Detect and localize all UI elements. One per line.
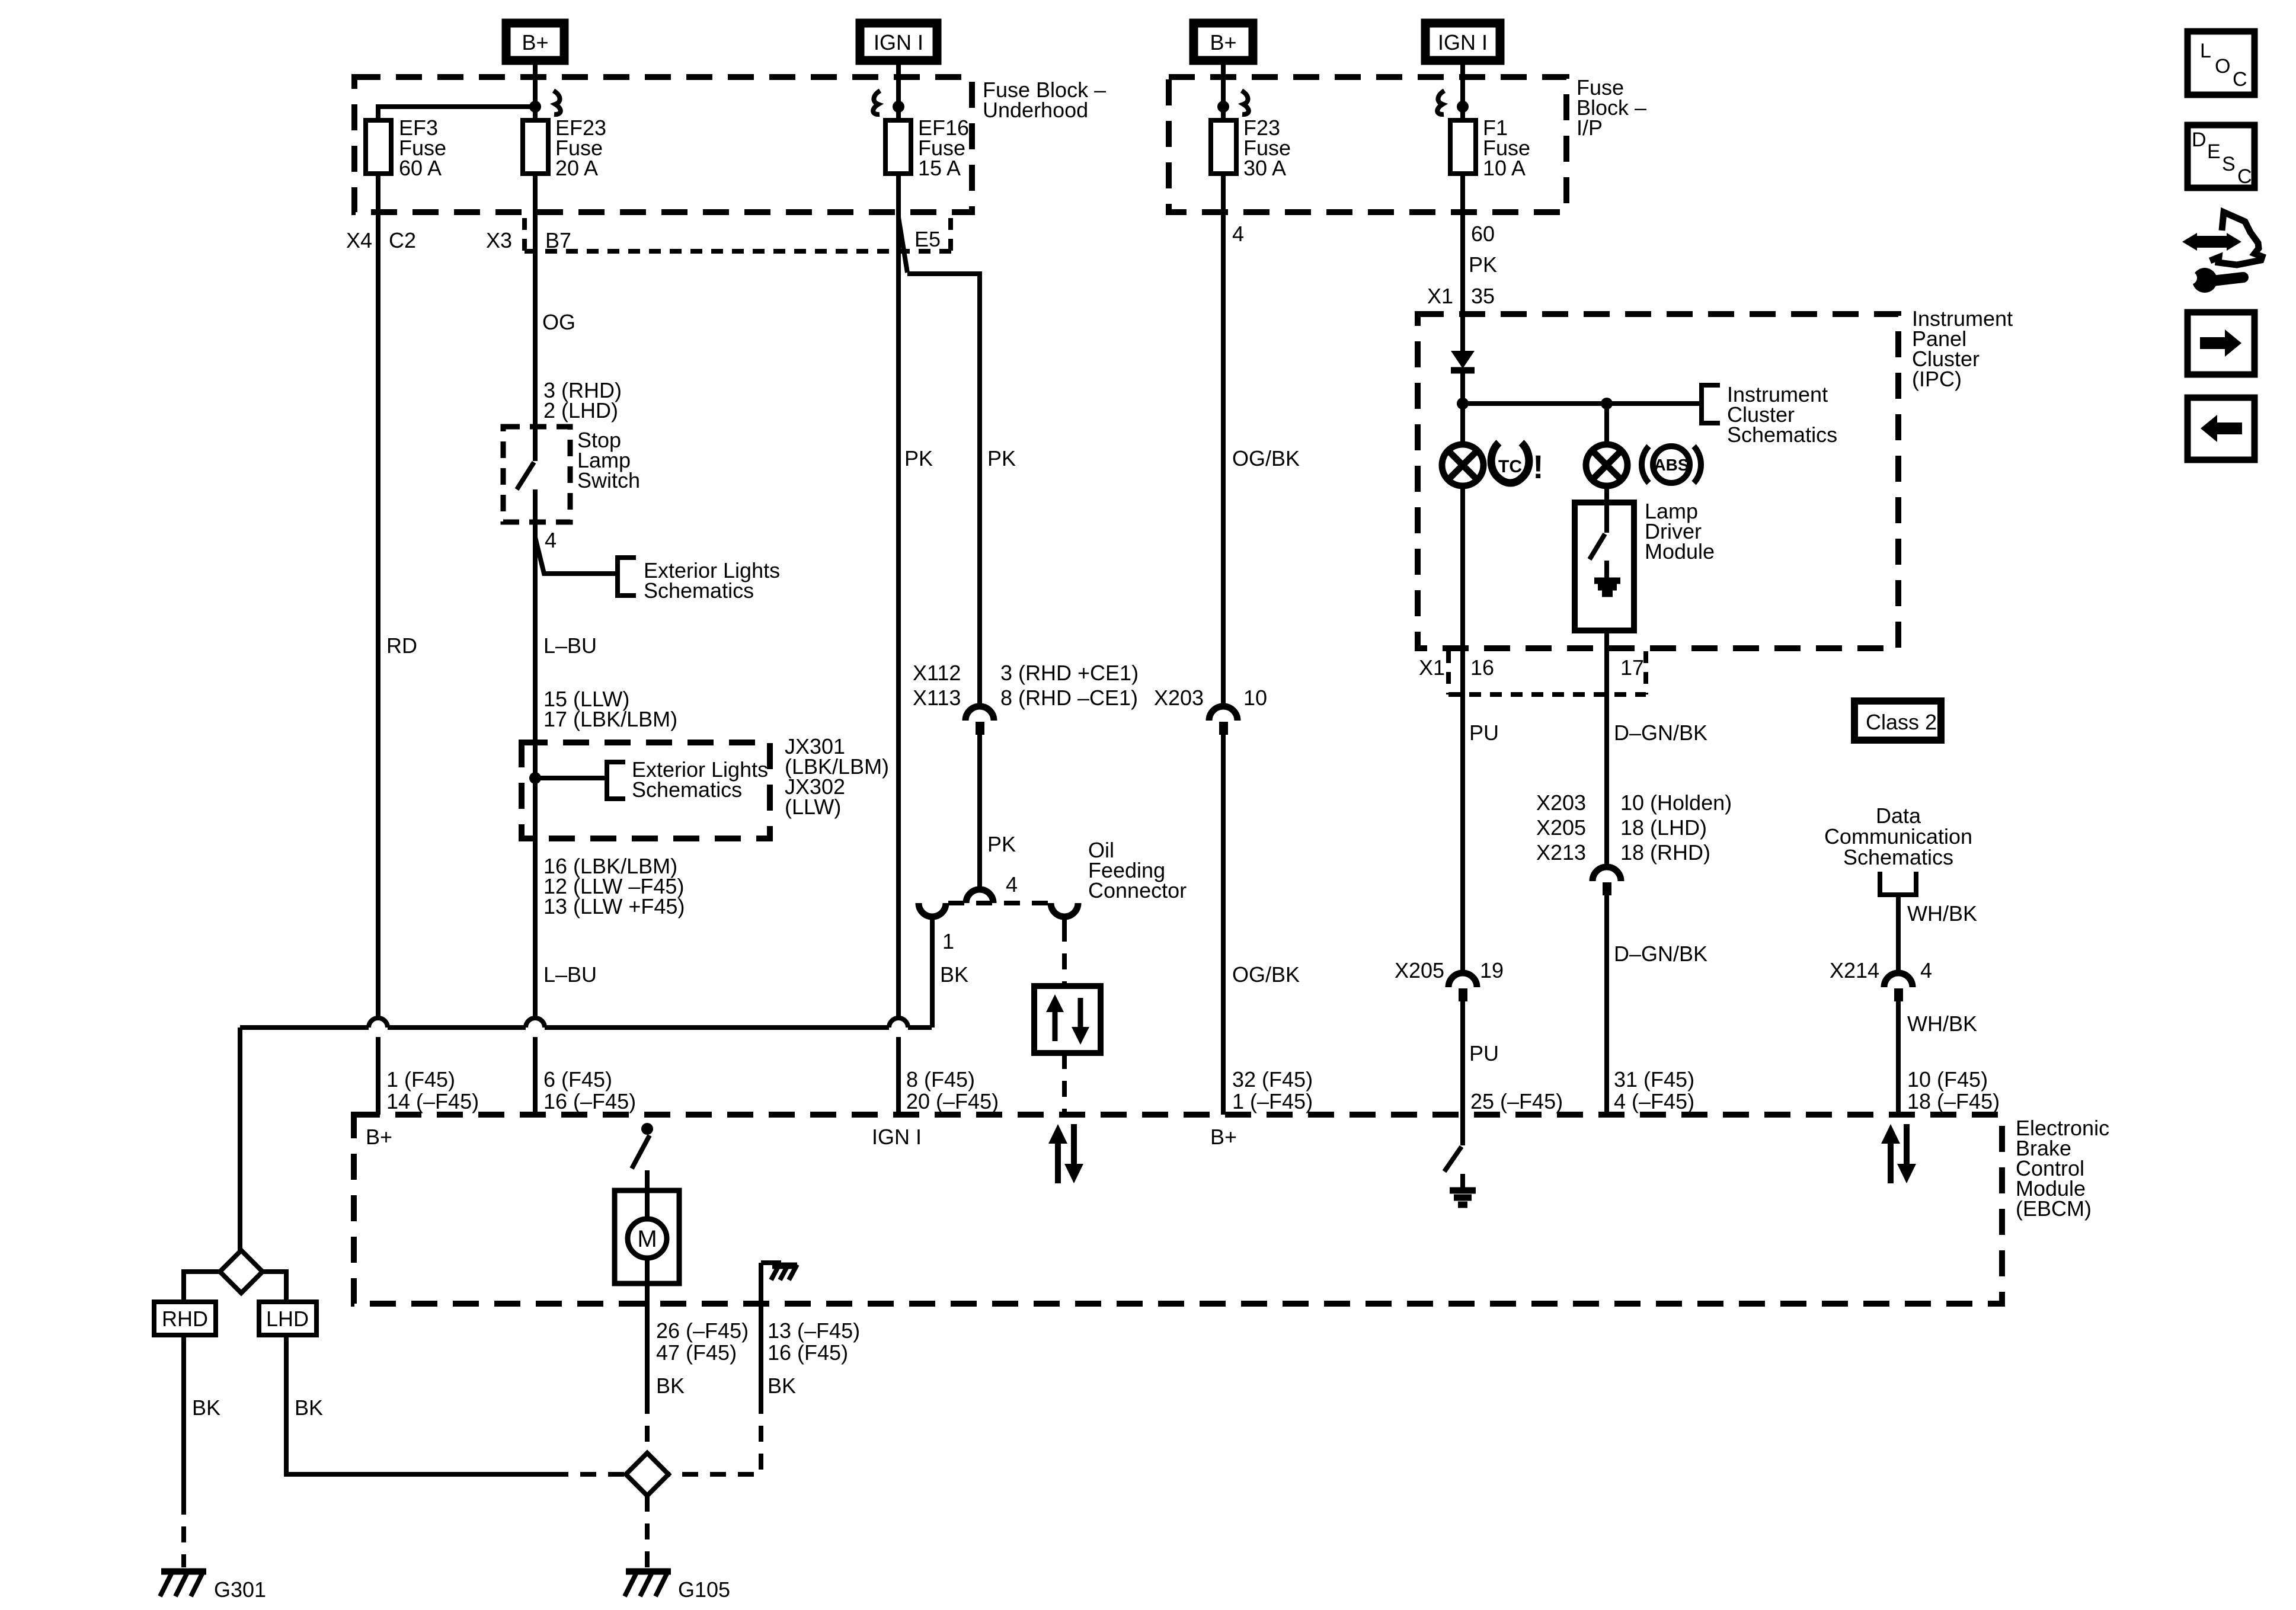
svg-text:!: !	[1533, 448, 1544, 485]
svg-text:IGN I: IGN I	[872, 1125, 922, 1149]
node junction dot at F1 feed	[1457, 101, 1469, 113]
pin labels 31 (F45) 4 (-F45)	[1614, 1067, 1694, 1113]
icon service wrench with arrows	[2177, 212, 2262, 293]
svg-text:RD: RD	[386, 633, 417, 658]
svg-text:IGN I: IGN I	[1438, 30, 1488, 55]
clip connector hook right of F23 junction	[1242, 91, 1249, 114]
svg-text:2 (LHD): 2 (LHD)	[543, 398, 618, 422]
stop lamp switch contacts and blade	[517, 427, 535, 522]
wire label BK (ground stub)	[768, 1374, 796, 1398]
pin labels 32 (F45) 1 (-F45)	[1232, 1067, 1313, 1113]
svg-text:1 (–F45): 1 (–F45)	[1232, 1089, 1313, 1113]
wire branch to exterior lights schematics	[535, 537, 618, 574]
node junction dot right (IPC)	[1601, 398, 1613, 409]
svg-text:35: 35	[1471, 284, 1495, 308]
svg-text:WH/BK: WH/BK	[1907, 1012, 1977, 1036]
wire left drop to RHD/LHD diamond	[238, 1028, 242, 1251]
svg-text:D–GN/BK: D–GN/BK	[1614, 721, 1707, 745]
svg-text:L: L	[2200, 40, 2211, 62]
icon forward arrow box	[2188, 312, 2255, 375]
two-way arrows below EBCM edge (oil feeding)	[1048, 1124, 1083, 1183]
stop lamp switch label	[577, 428, 640, 492]
chassis ground stub in EBCM	[761, 1263, 797, 1280]
svg-text:20 (–F45): 20 (–F45)	[906, 1089, 999, 1113]
data communication schematics label	[1824, 804, 1972, 869]
pin labels 3 (RHD +CE1) 8 (RHD -CE1)	[1000, 661, 1139, 710]
ground G105	[625, 1570, 730, 1602]
svg-text:C2: C2	[389, 228, 416, 252]
wire B+ into fuse block	[533, 60, 538, 120]
svg-text:G301: G301	[214, 1577, 266, 1602]
svg-text:18 (–F45): 18 (–F45)	[1907, 1089, 2000, 1113]
wire PK from fuse F1 to IPC	[1460, 174, 1465, 353]
svg-text:ABS: ABS	[1654, 456, 1689, 474]
wire label BK	[940, 962, 968, 987]
svg-text:PK: PK	[987, 832, 1016, 856]
connector row X1 16 17 dotted box	[1448, 651, 1646, 694]
pin labels 8 (F45) 20 (-F45)	[906, 1067, 999, 1113]
pin label 60	[1471, 222, 1495, 246]
connector labels X4 C2	[346, 228, 416, 252]
pin label 4 at oil connector	[1006, 872, 1018, 897]
wire WH/BK from bracket	[1896, 895, 1901, 972]
inline connector on D-GN/BK wire	[1593, 867, 1621, 895]
svg-text:X214: X214	[1830, 958, 1879, 982]
svg-text:18 (RHD): 18 (RHD)	[1620, 840, 1710, 865]
svg-text:16 (F45): 16 (F45)	[768, 1340, 848, 1365]
svg-text:LHD: LHD	[266, 1307, 309, 1331]
svg-text:PK: PK	[904, 446, 933, 470]
svg-text:16: 16	[1470, 655, 1494, 680]
bracket instrument cluster schematics	[1702, 385, 1720, 423]
wire horizontal to instrument cluster bracket	[1463, 401, 1702, 406]
wire label OG/BK (upper)	[1232, 446, 1300, 470]
wire PK from EF16 with E5 jog	[898, 174, 980, 1115]
wire label WH/BK (upper)	[1907, 901, 1977, 926]
svg-text:Switch: Switch	[577, 468, 640, 492]
clip connector hook right of B+ junction	[554, 91, 561, 114]
svg-text:14 (–F45): 14 (–F45)	[386, 1089, 479, 1113]
svg-text:60 A: 60 A	[399, 156, 442, 180]
fuse EF3 value label	[399, 116, 446, 180]
svg-text:X203: X203	[1154, 686, 1204, 710]
bracket exterior lights schematics (lower)	[607, 762, 625, 799]
svg-text:O: O	[2215, 55, 2230, 78]
two-way signal box on oil feeding circuit	[1034, 986, 1101, 1053]
node junction dot left (IPC)	[1457, 398, 1469, 409]
pin labels 10 (F45) 18 (-F45)	[1907, 1067, 2000, 1113]
svg-text:10 (F45): 10 (F45)	[1907, 1067, 1988, 1092]
power terminal B+ (underhood)	[506, 23, 564, 60]
splice diamond G105	[626, 1453, 669, 1496]
icon ABS	[1642, 446, 1701, 483]
svg-text:4: 4	[545, 528, 557, 552]
instrument panel cluster dashed box	[1418, 314, 1898, 648]
wire dashed oil feeding down to EBCM	[1062, 917, 1067, 1115]
wire lamp TC down through IPC connector	[1460, 486, 1465, 972]
pin label 25 (-F45)	[1470, 1089, 1563, 1113]
wire dashed between oil connector halves	[948, 901, 1049, 905]
svg-text:Schematics: Schematics	[632, 777, 742, 802]
clip connector hook left of F1 junction	[1437, 91, 1444, 114]
svg-text:1 (F45): 1 (F45)	[386, 1067, 455, 1092]
wire BK from RHD to ground	[181, 1335, 186, 1567]
svg-text:X203: X203	[1536, 790, 1586, 815]
pin labels 1 (F45) 14 (-F45)	[386, 1067, 479, 1113]
svg-text:4: 4	[1232, 222, 1244, 246]
switch to ground in EBCM (PU wire)	[1444, 1115, 1476, 1205]
svg-text:X205: X205	[1395, 958, 1444, 982]
fuse F23 value label	[1243, 116, 1291, 180]
svg-text:PU: PU	[1469, 721, 1499, 745]
wire OG from EF23 to stop lamp switch	[533, 174, 538, 427]
pin labels X203 X205 X213	[1536, 790, 1586, 865]
wire label D-GN/BK (lower)	[1614, 942, 1707, 966]
fuse block underhood dashed box	[354, 77, 972, 212]
svg-text:X3: X3	[486, 228, 512, 252]
svg-text:18 (LHD): 18 (LHD)	[1620, 815, 1707, 840]
pin label 3 (RHD) 2 (LHD)	[543, 378, 622, 422]
exterior lights schematics label (upper)	[644, 558, 780, 603]
lamp driver module label	[1645, 499, 1715, 564]
wire label D-GN/BK (upper)	[1614, 721, 1707, 745]
pin label 4 below F23	[1232, 222, 1244, 246]
wire BK from ground stub	[669, 1263, 761, 1474]
wire from lamp driver module down	[1604, 630, 1609, 866]
wire PK below connector to oil feeding connector	[977, 735, 982, 889]
svg-text:X112: X112	[913, 661, 961, 685]
pump motor box	[615, 1190, 679, 1283]
svg-text:Schematics: Schematics	[1843, 845, 1953, 869]
wire label OG	[542, 310, 575, 334]
fuse block I/P label	[1576, 75, 1646, 140]
svg-text:3 (RHD +CE1): 3 (RHD +CE1)	[1000, 661, 1139, 685]
two-way arrows below EBCM edge (class 2 serial data)	[1881, 1124, 1916, 1183]
svg-text:17 (LBK/LBM): 17 (LBK/LBM)	[543, 707, 677, 731]
wire label PU (lower)	[1469, 1041, 1499, 1065]
wire IGN I I/P into fuse block	[1460, 60, 1465, 120]
svg-text:L–BU: L–BU	[543, 962, 597, 987]
pin labels X214 4	[1830, 958, 1932, 982]
EBCM label	[2016, 1116, 2109, 1221]
node junction dot at B+ I/P feed	[1217, 101, 1229, 113]
wire BK from oil connector to bus	[930, 917, 935, 1028]
svg-text:17: 17	[1620, 655, 1644, 680]
svg-text:X1: X1	[1419, 655, 1445, 680]
junction box JX301 JX302 dashed box	[522, 742, 770, 838]
indicator lamp ABS	[1586, 404, 1627, 486]
svg-text:Connector: Connector	[1088, 878, 1187, 902]
wire PU below connector to EBCM	[1460, 1001, 1465, 1115]
fuse EF23	[523, 120, 548, 174]
svg-text:16 (–F45): 16 (–F45)	[543, 1089, 636, 1113]
instrument panel cluster label	[1912, 306, 2013, 391]
pin labels X1 35	[1427, 284, 1495, 308]
svg-text:I/P: I/P	[1576, 116, 1603, 140]
lamp driver module switch and ground	[1590, 502, 1620, 594]
svg-text:M: M	[637, 1226, 657, 1252]
svg-text:WH/BK: WH/BK	[1907, 901, 1977, 926]
svg-text:B7: B7	[545, 228, 571, 252]
svg-text:X4: X4	[346, 228, 372, 252]
svg-text:10: 10	[1243, 686, 1267, 710]
pin labels X205 19	[1395, 958, 1504, 982]
net label B+ (left, in EBCM)	[366, 1125, 392, 1149]
svg-text:E: E	[2207, 140, 2221, 163]
svg-text:TC: TC	[1498, 457, 1522, 476]
icon TC warning (tire + !)	[1491, 443, 1544, 485]
svg-text:C: C	[2233, 68, 2247, 91]
node junction dot in JX box	[529, 772, 541, 784]
power terminal IGN I (I/P)	[1425, 23, 1500, 60]
svg-text:S: S	[2222, 153, 2236, 175]
node junction dot pump motor supply	[641, 1123, 653, 1135]
svg-text:(EBCM): (EBCM)	[2016, 1196, 2092, 1221]
svg-text:20 A: 20 A	[555, 156, 598, 180]
svg-text:4: 4	[1920, 958, 1932, 982]
svg-text:13 (–F45): 13 (–F45)	[768, 1318, 860, 1343]
wire WH/BK below connector to EBCM	[1896, 1001, 1901, 1115]
svg-text:26 (–F45): 26 (–F45)	[656, 1318, 749, 1343]
svg-text:B+: B+	[1210, 1125, 1237, 1149]
svg-text:10 A: 10 A	[1483, 156, 1526, 180]
RHD option box	[154, 1302, 216, 1335]
node junction dot at IGN I feed	[893, 101, 904, 113]
svg-text:BK: BK	[192, 1395, 220, 1420]
wire IGN I into fuse block	[896, 60, 901, 120]
pin label 15 (LLW) 17 (LBK/LBM)	[543, 687, 677, 731]
inline connector X112/X113 on PK wire	[965, 706, 994, 735]
wire diamond to LHD box	[263, 1272, 286, 1302]
inline connector X205 on PU wire	[1448, 973, 1477, 1001]
svg-text:OG/BK: OG/BK	[1232, 962, 1300, 987]
wire label BK (LHD)	[295, 1395, 323, 1420]
svg-text:RHD: RHD	[162, 1307, 208, 1331]
pin labels 26 (-F45) 47 (F45)	[656, 1318, 749, 1365]
ground G301	[160, 1570, 266, 1602]
fuse F1	[1450, 120, 1476, 174]
svg-text:B+: B+	[366, 1125, 392, 1149]
svg-text:10 (Holden): 10 (Holden)	[1620, 790, 1732, 815]
svg-text:(LLW): (LLW)	[785, 795, 841, 819]
wire lamp ABS to lamp driver module	[1604, 486, 1609, 502]
svg-text:B+: B+	[1210, 30, 1236, 55]
power terminal IGN I (underhood)	[860, 23, 937, 60]
wire D-GN/BK below connector to EBCM	[1604, 895, 1609, 1115]
svg-text:X205: X205	[1536, 815, 1586, 840]
splice diamond RHD/LHD	[220, 1250, 263, 1293]
wire label RD	[386, 633, 417, 658]
diode in IPC	[1451, 351, 1475, 404]
svg-text:31 (F45): 31 (F45)	[1614, 1067, 1694, 1092]
clip connector hook left of IGN I junction	[873, 91, 880, 114]
svg-text:Schematics: Schematics	[644, 578, 754, 603]
svg-text:E5: E5	[914, 227, 941, 251]
lamp driver module box	[1575, 502, 1634, 630]
wire label BK (motor)	[656, 1374, 685, 1398]
LHD option box	[259, 1302, 316, 1335]
inline connector X203 on OG/BK wire	[1209, 706, 1237, 735]
wire label PK above oil connector	[987, 832, 1016, 856]
svg-text:8 (F45): 8 (F45)	[906, 1067, 975, 1092]
pump motor M circle	[628, 1190, 667, 1283]
wire label PK (right)	[987, 446, 1016, 470]
wire branch to exterior lights schematics (lower)	[535, 776, 607, 780]
svg-text:6 (F45): 6 (F45)	[543, 1067, 612, 1092]
wire horizontal bus with hops	[240, 1018, 932, 1028]
junction box labels JX301 (LBK/LBM) JX302 (LLW)	[785, 734, 889, 819]
wire dashed diamond to G105	[645, 1496, 650, 1567]
svg-text:13 (LLW +F45): 13 (LLW +F45)	[543, 894, 685, 918]
svg-text:B+: B+	[522, 30, 548, 55]
svg-text:Module: Module	[1645, 539, 1715, 564]
icon back arrow box	[2188, 398, 2255, 460]
svg-text:Underhood: Underhood	[983, 98, 1088, 122]
svg-text:BK: BK	[768, 1374, 796, 1398]
fuse EF16 value label	[918, 116, 969, 180]
connector labels X3 B7	[486, 228, 571, 252]
wire RD from EF3 down to EBCM	[376, 174, 380, 1115]
svg-text:L–BU: L–BU	[543, 633, 597, 658]
svg-text:X113: X113	[913, 686, 961, 710]
svg-text:X1: X1	[1427, 284, 1453, 308]
svg-text:BK: BK	[656, 1374, 685, 1398]
svg-text:PK: PK	[1469, 252, 1497, 277]
pin label 1 (BK wire)	[942, 929, 954, 953]
svg-text:OG: OG	[542, 310, 575, 334]
pin labels 10 (Holden) 18 (LHD) 18 (RHD)	[1620, 790, 1732, 865]
wire OG/BK below connector to EBCM	[1221, 735, 1226, 1115]
wire label BK (RHD)	[192, 1395, 220, 1420]
pin label 16 12 13 group	[543, 854, 685, 918]
wire BK from LHD to splice	[286, 1335, 626, 1474]
svg-text:OG/BK: OG/BK	[1232, 446, 1300, 470]
wire branch to EF3	[378, 107, 535, 120]
connector label E5	[914, 227, 941, 251]
wire BK from pump motor	[645, 1283, 650, 1454]
oil feeding connector halves	[919, 889, 1078, 917]
wire label PK (left)	[904, 446, 933, 470]
fuse block I/P dashed box	[1169, 77, 1566, 212]
pin label X203 10	[1154, 686, 1267, 710]
wire label OG/BK (lower)	[1232, 962, 1300, 987]
exterior lights schematics label (lower)	[632, 757, 768, 802]
svg-text:Schematics: Schematics	[1727, 422, 1837, 447]
pin labels 13 (-F45) 16 (F45)	[768, 1318, 860, 1365]
svg-text:PU: PU	[1469, 1041, 1499, 1065]
svg-text:60: 60	[1471, 222, 1495, 246]
class 2 box	[1854, 701, 1941, 740]
svg-text:25 (–F45): 25 (–F45)	[1470, 1089, 1563, 1113]
wire L-BU below switch down to EBCM	[533, 522, 538, 1115]
fuse F1 value label	[1483, 116, 1530, 180]
stop lamp switch dashed box	[503, 427, 570, 522]
pin labels X112 X113	[913, 661, 961, 710]
fuse F23	[1211, 120, 1236, 174]
svg-text:4: 4	[1006, 872, 1018, 897]
instrument cluster schematics label	[1727, 382, 1837, 447]
svg-text:15 A: 15 A	[918, 156, 961, 180]
svg-text:D: D	[2192, 129, 2207, 151]
node junction dot at B+ feed	[529, 101, 541, 113]
svg-text:G105: G105	[678, 1577, 730, 1602]
svg-text:30 A: 30 A	[1243, 156, 1286, 180]
svg-text:32 (F45): 32 (F45)	[1232, 1067, 1313, 1092]
net label B+ (right, in EBCM)	[1210, 1125, 1237, 1149]
fuse block underhood label	[983, 78, 1106, 122]
inline connector X214 on WH/BK wire	[1884, 973, 1913, 1001]
svg-text:47 (F45): 47 (F45)	[656, 1340, 737, 1365]
wire label L-BU (lower)	[543, 962, 597, 987]
svg-text:4 (–F45): 4 (–F45)	[1614, 1089, 1694, 1113]
svg-text:PK: PK	[987, 446, 1016, 470]
wire B+ I/P into fuse block	[1221, 60, 1226, 120]
svg-text:X213: X213	[1536, 840, 1586, 865]
svg-text:D–GN/BK: D–GN/BK	[1614, 942, 1707, 966]
svg-text:1: 1	[942, 929, 954, 953]
svg-text:8 (RHD –CE1): 8 (RHD –CE1)	[1000, 686, 1138, 710]
fuse EF16	[885, 120, 911, 174]
wire OG/BK from fuse F23 down	[1221, 174, 1226, 706]
icon DESC box	[2188, 125, 2255, 188]
pin label 4 below switch	[545, 528, 557, 552]
wire label L-BU (upper)	[543, 633, 597, 658]
svg-text:BK: BK	[940, 962, 968, 987]
svg-text:C: C	[2237, 165, 2252, 188]
svg-text:IGN I: IGN I	[874, 30, 923, 55]
svg-text:19: 19	[1480, 958, 1504, 982]
wire label WH/BK (lower)	[1907, 1012, 1977, 1036]
wire diamond to RHD box	[184, 1272, 220, 1302]
svg-text:BK: BK	[295, 1395, 323, 1420]
indicator lamp TC	[1442, 404, 1483, 486]
svg-text:(IPC): (IPC)	[1912, 367, 1962, 391]
bracket exterior lights schematics (upper)	[618, 558, 636, 596]
svg-text:Class 2: Class 2	[1866, 710, 1937, 734]
fuse EF3	[366, 120, 391, 174]
connector labels X1 16 17	[1419, 655, 1644, 680]
pump motor relay switch	[632, 1135, 650, 1190]
EBCM dashed box	[354, 1115, 2002, 1304]
pin labels 6 (F45) 16 (-F45)	[543, 1067, 636, 1113]
bracket data communication schematics	[1880, 872, 1916, 895]
wire label PU (upper)	[1469, 721, 1499, 745]
fuse EF23 value label	[555, 116, 606, 180]
icon LOC box	[2188, 31, 2255, 95]
net label IGN I (in EBCM)	[872, 1125, 922, 1149]
wire label PK	[1469, 252, 1497, 277]
oil feeding connector label	[1088, 838, 1187, 902]
connector row X3 B7 E5 dotted lines	[525, 218, 955, 251]
power terminal B+ (I/P)	[1194, 23, 1253, 60]
